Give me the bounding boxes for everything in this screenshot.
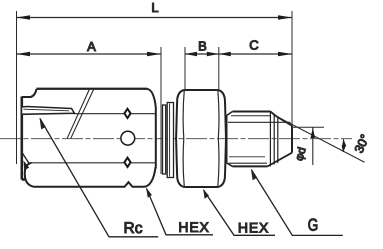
Rc thread wedge <box>22 107 75 115</box>
chamfer diagonal bottom-left <box>22 153 30 165</box>
svg-text:30°: 30° <box>352 132 373 155</box>
cone bottom slant <box>268 153 293 167</box>
G stud bottom edge <box>233 165 268 167</box>
nut facet line left <box>183 90 184 187</box>
nut facet line right <box>218 90 219 187</box>
cone top chamfer + slant <box>270 112 292 126</box>
extension line right tip <box>291 11 293 125</box>
svg-text:A: A <box>87 39 96 54</box>
svg-text:φd: φd <box>293 146 308 162</box>
extension line left <box>16 11 18 164</box>
centerline <box>0 138 352 140</box>
thread root line top <box>228 121 291 123</box>
hex facet diagonal 1 <box>67 89 89 138</box>
svg-text:B: B <box>198 39 207 54</box>
G stud top edge <box>233 111 271 113</box>
G stud chamfers <box>227 112 233 167</box>
extension line B right <box>218 47 220 89</box>
hex facet diagonal 2 <box>71 89 94 138</box>
dimension B <box>185 53 219 55</box>
diamond mark upper <box>124 109 130 118</box>
30 deg arc with arrows <box>342 139 345 152</box>
svg-text:HEX: HEX <box>178 219 209 235</box>
svg-text:L: L <box>151 0 158 15</box>
leader HEX 2 <box>204 190 276 235</box>
extension line A right <box>160 47 162 174</box>
dimension L <box>17 17 293 19</box>
leader HEX 1 <box>147 189 214 235</box>
nut B outline <box>176 90 226 187</box>
circle mark <box>121 131 135 145</box>
svg-text:G: G <box>308 216 319 235</box>
relief groove lines <box>270 112 277 167</box>
svg-text:Rc: Rc <box>124 220 143 237</box>
thread shoulder line top <box>231 115 270 117</box>
washer plate 1 <box>163 105 166 174</box>
leader Rc <box>40 119 158 237</box>
dimension C <box>219 53 292 55</box>
svg-text:HEX: HEX <box>238 220 269 236</box>
upper flat line <box>74 113 156 115</box>
phi-d dimension stem <box>312 128 314 166</box>
svg-text:C: C <box>249 38 258 53</box>
extension line B left <box>184 47 186 89</box>
lower flat line <box>32 162 156 164</box>
hex body bottom cap (pill) <box>25 163 156 187</box>
diamond mark lower <box>124 158 130 167</box>
30 deg construction line <box>276 116 364 162</box>
washer plate 2 <box>167 103 173 178</box>
dimension A <box>17 53 162 55</box>
leader G <box>252 170 343 236</box>
hex body A outline <box>22 89 156 169</box>
phi-d extension line <box>292 126 324 128</box>
thread root line bottom low <box>229 156 265 158</box>
tip face <box>291 126 293 153</box>
thread root line bottom <box>229 162 267 164</box>
hex body top edge thin tail <box>37 88 148 90</box>
G stud left face <box>226 116 228 163</box>
